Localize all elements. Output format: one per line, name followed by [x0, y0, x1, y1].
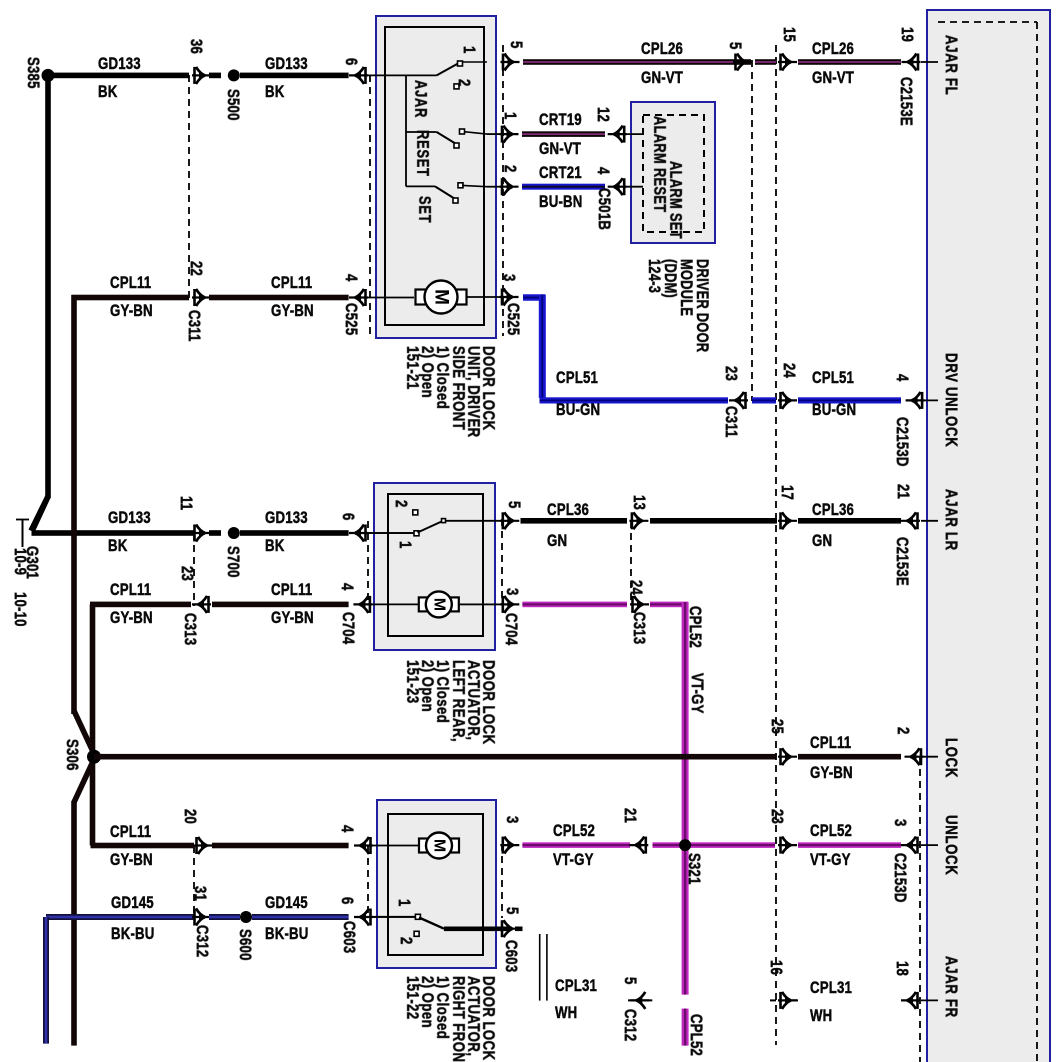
svg-text:M: M: [431, 289, 452, 305]
svg-text:M: M: [431, 839, 448, 852]
svg-text:M: M: [430, 598, 447, 611]
